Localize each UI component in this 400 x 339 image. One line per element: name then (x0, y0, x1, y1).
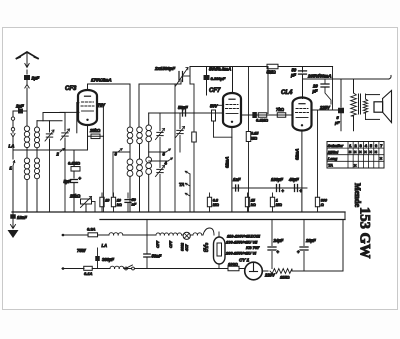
svg-text:2µF: 2µF (31, 76, 40, 81)
svg-text:205V/38mA: 205V/38mA (307, 74, 331, 79)
svg-text:µF: µF (334, 121, 340, 125)
svg-text:C 1 3: C 1 3 (205, 242, 209, 252)
svg-text:1: 1 (276, 199, 278, 203)
svg-text:110-130V=EUXXE: 110-130V=EUXXE (227, 234, 260, 239)
svg-text:25kΩ: 25kΩ (89, 128, 101, 133)
svg-text:62mA: 62mA (295, 149, 300, 160)
svg-text:CY 1: CY 1 (239, 258, 250, 263)
svg-text:62mA: 62mA (225, 157, 230, 168)
svg-text:×: × (354, 163, 357, 168)
svg-text:KS 707: KS 707 (246, 245, 260, 250)
svg-text:2µF: 2µF (15, 104, 24, 109)
svg-text:130-150V=EU VII: 130-150V=EU VII (226, 240, 258, 245)
svg-text:9662: 9662 (181, 243, 185, 251)
svg-text:kΩ: kΩ (117, 203, 122, 207)
svg-text:0.1MΩ: 0.1MΩ (256, 118, 269, 123)
svg-text:50nF: 50nF (152, 254, 162, 259)
svg-text:0.8: 0.8 (213, 199, 219, 203)
svg-text:50V: 50V (210, 104, 219, 109)
svg-text:0.3A: 0.3A (87, 227, 96, 232)
svg-text:CL4: CL4 (281, 90, 293, 96)
svg-text:µF: µF (290, 73, 296, 78)
svg-text:300µF: 300µF (102, 257, 114, 262)
svg-text:300: 300 (321, 199, 328, 203)
svg-text:20µF: 20µF (305, 238, 316, 243)
svg-text:×: × (364, 150, 367, 155)
svg-text:CF7: CF7 (209, 88, 221, 94)
svg-text:TA: TA (328, 163, 333, 168)
svg-text:115Ω: 115Ω (280, 275, 290, 280)
svg-text:4C7: 4C7 (185, 243, 189, 252)
svg-text:MΩ: MΩ (251, 137, 257, 141)
svg-text:Mende: Mende (353, 183, 362, 207)
svg-text:100Ω: 100Ω (228, 262, 239, 267)
svg-text:75W: 75W (77, 248, 87, 253)
svg-text:220V: 220V (264, 273, 276, 278)
svg-text:+: + (79, 176, 82, 181)
svg-text:TA: TA (179, 182, 184, 187)
svg-text:Lang: Lang (328, 156, 338, 161)
svg-text:2x1500pF: 2x1500pF (154, 66, 175, 71)
svg-text:25kΩ: 25kΩ (69, 194, 81, 199)
svg-text:0.1A: 0.1A (84, 271, 93, 276)
svg-text:50µF: 50µF (178, 105, 188, 110)
svg-text:Mittel: Mittel (328, 149, 339, 154)
svg-text:1nF: 1nF (233, 177, 241, 182)
svg-text:50V/0.3mA: 50V/0.3mA (209, 67, 231, 72)
svg-text:×: × (369, 150, 372, 155)
svg-text:×: × (354, 150, 357, 155)
svg-text:CF7: CF7 (156, 240, 160, 248)
svg-text:LA: LA (9, 144, 15, 149)
svg-text:LA: LA (102, 243, 108, 248)
svg-text:24µF: 24µF (273, 238, 284, 243)
svg-text:40µF: 40µF (288, 177, 299, 182)
svg-text:MΩ: MΩ (276, 203, 282, 207)
svg-text:10nF: 10nF (17, 215, 27, 220)
svg-text:225V: 225V (319, 105, 331, 110)
svg-text:+: + (297, 250, 300, 255)
svg-text:Schalter: Schalter (328, 143, 344, 148)
svg-text:0.300µF: 0.300µF (211, 76, 226, 81)
svg-text:MΩ: MΩ (213, 203, 219, 207)
svg-text:170V.5mA: 170V.5mA (91, 78, 112, 83)
svg-text:153 GW: 153 GW (357, 207, 373, 259)
svg-text:×: × (374, 150, 377, 155)
svg-text:×: × (380, 156, 383, 161)
svg-text:CF7: CF7 (169, 240, 173, 248)
svg-text:nF: nF (132, 203, 137, 207)
svg-text:0.15: 0.15 (251, 132, 259, 136)
svg-text:Ω: Ω (320, 203, 324, 207)
svg-text:7kΩ: 7kΩ (276, 107, 285, 112)
svg-text:200-250V=EU VI: 200-250V=EU VI (225, 251, 257, 256)
svg-text:+: + (277, 250, 280, 255)
svg-text:kΩ: kΩ (251, 203, 256, 207)
svg-text:100µF: 100µF (271, 177, 283, 182)
svg-text:CF3: CF3 (65, 86, 77, 92)
svg-text:×: × (349, 150, 352, 155)
svg-text:5µF: 5µF (64, 179, 72, 184)
svg-text:0.1MΩ: 0.1MΩ (68, 161, 81, 166)
svg-text:7: 7 (380, 143, 382, 148)
svg-text:µF: µF (312, 89, 318, 94)
svg-text:×: × (359, 150, 362, 155)
